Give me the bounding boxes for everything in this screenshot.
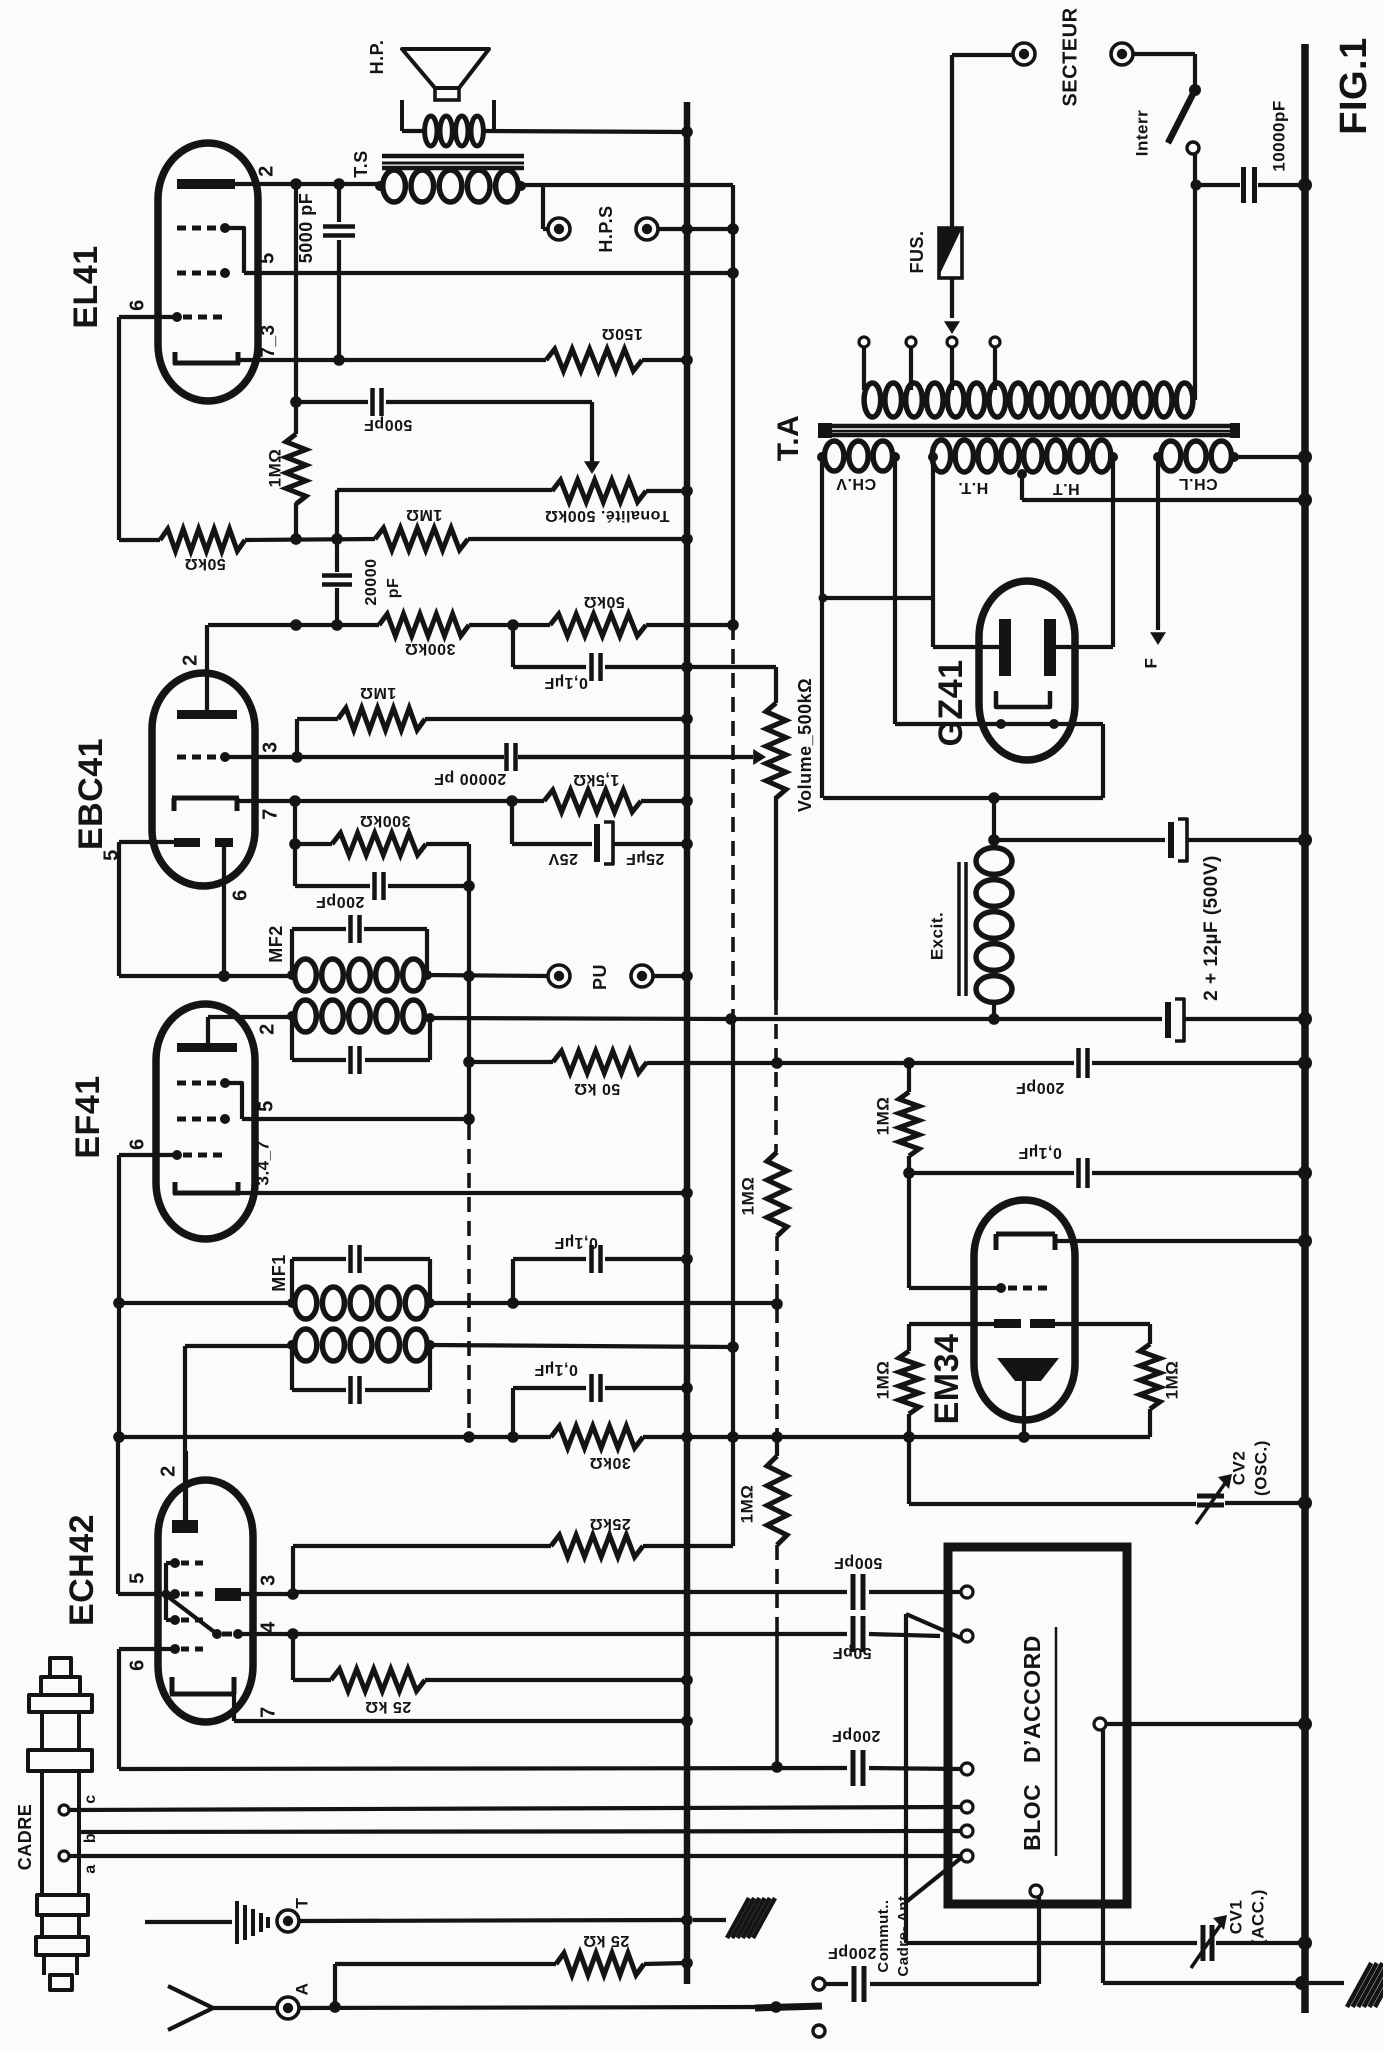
transformer CH.L label bbox=[1178, 475, 1217, 492]
antenna CADRE body bbox=[28, 1658, 92, 1990]
terminal H.P.S jack1 bbox=[548, 218, 570, 240]
wire bloc bottom to 200pF bbox=[1037, 1897, 1041, 1984]
resistor 1M (osc grid leak) bbox=[767, 1437, 787, 1545]
svg-text:CH.L: CH.L bbox=[1178, 475, 1217, 492]
capacitor 200pF (AVC filter) bbox=[777, 1048, 1312, 1078]
svg-text:25 kΩ: 25 kΩ bbox=[365, 1698, 411, 1715]
transformer MF1 secondary tank bbox=[292, 1245, 430, 1303]
tube EL41 grid2 row bbox=[177, 268, 230, 278]
capacitor 5000pF bbox=[323, 184, 355, 360]
tube ECH42 pin5 label bbox=[126, 1572, 148, 1584]
wire secteur lead2 bbox=[1133, 54, 1195, 88]
svg-text:4: 4 bbox=[257, 1621, 279, 1633]
svg-text:0,1µF: 0,1µF bbox=[554, 1234, 598, 1251]
wire EM34 cathode stem bbox=[1022, 1381, 1026, 1437]
tube EBC41 pin6 label bbox=[229, 889, 251, 901]
terminal bloc t3 bbox=[961, 1763, 973, 1775]
svg-text:CH.V: CH.V bbox=[836, 475, 876, 492]
tube ECH42 triode anode bar bbox=[215, 1588, 241, 1601]
wire EL41 pin6 grid lead bbox=[119, 317, 177, 540]
svg-text:200pF: 200pF bbox=[828, 1944, 877, 1961]
wire pin4 line to 50pF bbox=[293, 1632, 847, 1636]
wire EF41 cathode to bus bbox=[240, 1187, 693, 1199]
wire AVC branch x=469 dashed bbox=[463, 1125, 475, 1443]
svg-text:20000 pF: 20000 pF bbox=[434, 770, 506, 787]
svg-text:F: F bbox=[1141, 658, 1160, 669]
tube EM34 outline bbox=[974, 1200, 1075, 1420]
svg-text:1MΩ: 1MΩ bbox=[873, 1097, 892, 1136]
svg-text:2: 2 bbox=[179, 654, 201, 666]
label A bbox=[292, 1983, 311, 1996]
svg-text:500pF: 500pF bbox=[834, 1554, 883, 1571]
svg-text:0,1µF: 0,1µF bbox=[544, 674, 588, 691]
tube EL41 outline bbox=[158, 143, 258, 401]
label FIG.1 bbox=[1333, 37, 1375, 135]
wire 0.1uF branch drop bbox=[511, 625, 515, 667]
wire triode grid line bbox=[119, 1761, 847, 1773]
svg-text:25µF: 25µF bbox=[626, 850, 665, 867]
svg-text:0,1µF: 0,1µF bbox=[1018, 1144, 1062, 1161]
transformer T.A tap 3 bbox=[947, 337, 957, 390]
tube EBC41 pin3 label bbox=[259, 741, 281, 753]
svg-text:5000 pF: 5000 pF bbox=[296, 193, 316, 264]
antenna symbol at A bbox=[168, 1986, 276, 2030]
tube EF41 pin6 label bbox=[126, 1138, 148, 1150]
wire EBC41 pin3 grid lead bbox=[225, 751, 303, 763]
speaker H.P. horn bbox=[402, 49, 489, 100]
terminal SECTEUR plug2 bbox=[1111, 43, 1133, 65]
svg-text:H.P.S: H.P.S bbox=[596, 205, 616, 252]
capacitor 50pF label bbox=[832, 1644, 871, 1661]
wire bloc t6 link diagonal bbox=[906, 1858, 961, 1902]
svg-text:Excit.: Excit. bbox=[927, 912, 946, 960]
switch Commut lever bbox=[755, 2001, 825, 2037]
svg-text:c: c bbox=[82, 1794, 99, 1803]
label SECTEUR bbox=[1059, 7, 1081, 106]
wire EBC41 pin7 cathode lead bbox=[239, 795, 544, 807]
tube EF41 pin2 label bbox=[256, 1023, 278, 1035]
terminal A bbox=[277, 1997, 776, 2019]
svg-text:EM34: EM34 bbox=[928, 1334, 966, 1425]
svg-text:6: 6 bbox=[229, 889, 251, 901]
tube EBC41 pin5 label bbox=[100, 849, 122, 861]
tube ECH42 pin3 label bbox=[257, 1574, 279, 1586]
speaker H.P. label bbox=[367, 40, 387, 75]
terminal bloc t1 bbox=[961, 1586, 973, 1598]
resistor 1M (eye grid) bbox=[899, 1057, 919, 1288]
capacitor 0.1uF (AVC decoupling) bbox=[507, 1374, 693, 1443]
svg-text:5: 5 bbox=[100, 849, 122, 861]
transformer T.S primary winding bbox=[375, 170, 526, 202]
svg-text:H.P.: H.P. bbox=[367, 40, 387, 75]
tube EF41 pin347 label bbox=[253, 1140, 272, 1185]
resistor 1M (deflector left) bbox=[899, 1324, 919, 1437]
tube EM34 deflector bars bbox=[994, 1319, 1055, 1328]
transformer HT label left bbox=[958, 479, 988, 496]
transformer HT label right bbox=[1052, 480, 1079, 497]
wire tonalite arrow drop bbox=[584, 402, 600, 474]
tube GZ41 outline bbox=[979, 581, 1075, 760]
svg-text:1MΩ: 1MΩ bbox=[1162, 1361, 1181, 1400]
resistor 1M (volume-AVC) bbox=[767, 1152, 787, 1437]
wire ECH42 anode riser bbox=[185, 1346, 292, 1522]
wire HT rail to electrolytic bbox=[725, 1013, 1162, 1025]
choke Excit core bbox=[959, 862, 966, 996]
tube ECH42 label bbox=[63, 1514, 101, 1626]
resistor 1M (coupling) bbox=[375, 528, 693, 550]
tube EL41 pin5 label bbox=[256, 252, 278, 264]
svg-text:50 kΩ: 50 kΩ bbox=[574, 1080, 620, 1097]
tube ECH42 grid row4 bbox=[170, 1644, 203, 1654]
tube EBC41 label bbox=[72, 738, 110, 850]
tube EF41 cathode bbox=[173, 1182, 240, 1194]
node voice-coil to bus bbox=[681, 126, 693, 138]
svg-text:2: 2 bbox=[256, 1023, 278, 1035]
resistor 1M (deflector right) bbox=[1140, 1344, 1160, 1437]
svg-text:b: b bbox=[82, 1833, 99, 1843]
svg-text:2: 2 bbox=[157, 1465, 179, 1477]
transformer T.A winding CH.L bbox=[1153, 441, 1239, 471]
terminal bloc t2 bbox=[961, 1630, 973, 1642]
resistor 300k (anode load) bbox=[379, 614, 550, 636]
svg-text:1MΩ: 1MΩ bbox=[737, 1485, 756, 1524]
tube EL41 cathode bbox=[173, 352, 240, 364]
capacitor 25uF label bbox=[548, 850, 664, 867]
resistor 25k (osc grid) bbox=[551, 1535, 643, 1557]
node 150R to bus bbox=[681, 354, 693, 366]
tube EF41 pin5 label bbox=[255, 1100, 277, 1112]
wire HT left to plate bbox=[933, 457, 1005, 647]
speaker voice coil bbox=[402, 116, 687, 146]
capacitor 0.1uF eye label bbox=[1018, 1144, 1062, 1161]
resistor 1M vertical (EL41 grid) bbox=[286, 402, 306, 539]
svg-text:CV2: CV2 bbox=[1229, 1451, 1248, 1486]
tube EF41 outline bbox=[156, 1004, 255, 1239]
tube EBC41 pin2 label bbox=[179, 654, 201, 666]
capacitor 0.1uF (eye) bbox=[909, 1158, 1312, 1188]
wire EF41 pin6 grid lead bbox=[119, 1155, 177, 1303]
svg-text:CV1: CV1 bbox=[1226, 1900, 1245, 1935]
svg-text:Volume_500kΩ: Volume_500kΩ bbox=[795, 678, 815, 812]
tube EF41 grid3 row bbox=[177, 1078, 242, 1119]
svg-text:CADRE: CADRE bbox=[15, 1804, 35, 1871]
resistor 1M osc label bbox=[737, 1485, 756, 1524]
tube ECH42 grid row1 bbox=[170, 1558, 203, 1568]
terminal T bbox=[277, 1910, 693, 1932]
transformer T.S core bbox=[382, 156, 524, 168]
ground chassis hatch (bottom right) bbox=[1309, 1963, 1383, 2007]
resistor 25k cathode label bbox=[365, 1698, 411, 1715]
wire EM34 deflector left bbox=[909, 1322, 994, 1326]
ground chassis hatch (T) bbox=[693, 1898, 775, 1938]
capacitor 0.1uF label bbox=[544, 674, 588, 691]
wire MF1 right to volume line bbox=[430, 1297, 783, 1310]
capacitor 500pF osc label bbox=[834, 1554, 883, 1571]
resistor 25k (osc cathode) bbox=[293, 1634, 693, 1691]
resistor 50k label bbox=[184, 555, 226, 572]
svg-text:T.A: T.A bbox=[772, 415, 805, 462]
resistor 30k label bbox=[589, 1454, 631, 1471]
switch Interr bbox=[1168, 84, 1201, 186]
wire right HT bus (vertical, x=1305) bbox=[1301, 44, 1309, 2013]
transformer T.A primary bbox=[864, 383, 1193, 417]
wire PU jack2 to bus bbox=[653, 970, 693, 982]
wire T.S primary right to HPS rail bbox=[521, 183, 733, 187]
capacitor 20000pF label bbox=[363, 559, 402, 606]
tube ECH42 grid row2 bbox=[170, 1589, 203, 1599]
capacitor 200pF (padder) bbox=[853, 1750, 961, 1786]
svg-text:BLOC D’ACCORD: BLOC D’ACCORD bbox=[1019, 1635, 1045, 1851]
svg-text:Commut..: Commut.. bbox=[875, 1899, 892, 1972]
svg-text:7: 7 bbox=[259, 808, 281, 820]
capacitor 0.1uF (coupling) bbox=[513, 653, 776, 681]
capacitor 10000pF label bbox=[1269, 100, 1288, 172]
wire ECH42 pin3 lead bbox=[241, 1588, 299, 1600]
transformer CH.V label bbox=[836, 475, 876, 492]
wire aux link bbox=[819, 594, 934, 603]
wire HPS jack2 to bus bbox=[658, 223, 733, 235]
transformer T.S label bbox=[351, 150, 371, 178]
wire volume line dashed bbox=[771, 1000, 783, 1152]
resistor 1M coupling label bbox=[406, 506, 443, 523]
transformer MF2 primary tank bbox=[292, 1016, 430, 1074]
tube EM34 label bbox=[928, 1334, 966, 1425]
tube ECH42 outline bbox=[158, 1480, 253, 1722]
resistor 1M eye grid label bbox=[873, 1097, 892, 1136]
svg-text:10000pF: 10000pF bbox=[1269, 100, 1288, 172]
tube ECH42 osc grid row bbox=[212, 1629, 243, 1639]
capacitor 200pF (ant coupling) bbox=[813, 1966, 1039, 2002]
capacitor electrolytic 2uF bbox=[994, 819, 1312, 861]
svg-text:25V: 25V bbox=[548, 850, 578, 867]
svg-text:(OSC.): (OSC.) bbox=[1251, 1440, 1270, 1496]
potentiometer Volume 500k bbox=[766, 667, 786, 1000]
transformer MF1 secondary coil bbox=[287, 1287, 435, 1319]
capacitor 500pF bbox=[296, 388, 592, 416]
label CV1 (ACC.) bbox=[1226, 1889, 1267, 1945]
terminal SECTEUR plug1 bbox=[1013, 43, 1035, 65]
wire ECH42 pin5 lead bbox=[118, 1437, 166, 1594]
resistor 1M grid leak label bbox=[360, 684, 397, 701]
wire CV1 feed vertical bbox=[904, 1614, 908, 1943]
tube EBC41 grid row bbox=[177, 752, 230, 762]
tube ECH42 grid row3 bbox=[170, 1615, 203, 1625]
transformer T.A winding HT bbox=[928, 440, 1118, 479]
wire EL41 cathode pin7-3 lead bbox=[240, 354, 546, 366]
capacitor 50pF (osc) bbox=[853, 1616, 940, 1652]
tube GZ41 plates bbox=[999, 619, 1056, 676]
svg-text:H.T: H.T bbox=[1052, 480, 1079, 497]
svg-text:2: 2 bbox=[255, 165, 277, 177]
wire ECH42 osc grid diagonal bbox=[167, 1596, 217, 1634]
wire CH.V left drop bbox=[820, 457, 824, 798]
svg-text:MF2: MF2 bbox=[266, 925, 286, 963]
capacitor electrolytic 12uF bbox=[1165, 999, 1312, 1041]
svg-text:1,5kΩ: 1,5kΩ bbox=[573, 771, 619, 788]
label CV2 (OSC.) bbox=[1229, 1440, 1270, 1496]
potentiometer Volume label bbox=[795, 678, 815, 812]
transformer T.A tap 2 bbox=[906, 337, 916, 390]
wire AVC to EM34 bbox=[731, 1431, 1150, 1443]
wire B+ x=733 lower bbox=[727, 1022, 739, 1546]
svg-text:25kΩ: 25kΩ bbox=[589, 1515, 631, 1532]
resistor 1M label bbox=[265, 449, 284, 488]
resistor 150R label bbox=[601, 325, 643, 342]
switch Interr label bbox=[1132, 110, 1151, 156]
wire screen branch x=469 bbox=[463, 886, 475, 1125]
svg-text:300kΩ: 300kΩ bbox=[360, 812, 411, 829]
tube EBC41 pin7 label bbox=[259, 808, 281, 820]
potentiometer Tonalite label bbox=[545, 507, 670, 524]
wire ECH42 pin6 lead bbox=[119, 1649, 175, 1769]
block BLOC D'ACCORD box bbox=[948, 1547, 1127, 1904]
svg-text:300kΩ: 300kΩ bbox=[405, 640, 456, 657]
choke Excit label bbox=[927, 912, 946, 960]
tube EBC41 outline bbox=[152, 673, 255, 886]
resistor 25k (antenna) bbox=[335, 1953, 693, 2007]
label Commut Cadre Ant bbox=[875, 1895, 912, 1976]
terminal bloc t6 bbox=[961, 1850, 973, 1862]
svg-text:GZ41: GZ41 bbox=[932, 659, 970, 746]
label T bbox=[292, 1897, 311, 1908]
wire CH.L to bus bbox=[1234, 450, 1312, 464]
tube EL41 label bbox=[67, 245, 105, 328]
svg-text:Interr: Interr bbox=[1132, 110, 1151, 156]
svg-text:50pF: 50pF bbox=[832, 1644, 871, 1661]
capacitor 0.1uF (IF decoupling upper) bbox=[513, 1245, 693, 1303]
wire HT center tap bbox=[1022, 474, 1312, 507]
svg-text:6: 6 bbox=[126, 1138, 148, 1150]
wire HT right to plate bbox=[1050, 457, 1113, 647]
wire MF1 left to grid line bbox=[113, 1297, 292, 1309]
transformer MF1 primary tank bbox=[292, 1345, 430, 1404]
wire F arrow bbox=[1150, 457, 1166, 645]
transformer MF2 primary coil bbox=[287, 1000, 435, 1032]
wire EBC41 pin6 diode lead bbox=[218, 847, 230, 982]
svg-text:7_3: 7_3 bbox=[258, 324, 279, 357]
svg-text:200pF: 200pF bbox=[316, 893, 365, 910]
label F bbox=[1141, 658, 1160, 669]
tube GZ41 filament bbox=[996, 691, 1050, 707]
wire diode line to MF2 bbox=[119, 970, 292, 982]
label PU bbox=[590, 964, 610, 990]
wire osc grid riser bbox=[293, 1546, 551, 1594]
variable capacitor CV1 bbox=[906, 1915, 1312, 1968]
tube ECH42 pin7 label bbox=[257, 1706, 279, 1718]
capacitor 10000pF (mains) bbox=[1191, 167, 1313, 203]
svg-text:a: a bbox=[82, 1864, 99, 1873]
tube EM34 screen bbox=[997, 1358, 1059, 1381]
wire rectifier output bbox=[992, 798, 996, 840]
speaker frame bbox=[402, 100, 494, 131]
tube EF41 grid2 row bbox=[177, 1114, 230, 1124]
capacitor electrolytic label bbox=[1201, 855, 1222, 1001]
tube EBC41 diode plates bbox=[174, 838, 233, 847]
svg-text:ECH42: ECH42 bbox=[63, 1514, 101, 1626]
terminal PU jack2 bbox=[631, 965, 653, 987]
svg-text:1MΩ: 1MΩ bbox=[265, 449, 284, 488]
wire secteur lead1 bbox=[952, 55, 1013, 228]
resistor 150R bbox=[546, 349, 687, 371]
resistor 50k (EL41 grid leak) bbox=[119, 529, 375, 551]
svg-text:1MΩ: 1MΩ bbox=[873, 1361, 892, 1400]
svg-text:0,1µF: 0,1µF bbox=[534, 1361, 578, 1378]
capacitor 200pF ant label bbox=[828, 1944, 877, 1961]
tube EL41 anode bar bbox=[177, 179, 235, 189]
wire ECH42 grid bracket bbox=[162, 1563, 176, 1620]
tube EL41 grid1 row bbox=[172, 312, 222, 322]
svg-text:7: 7 bbox=[257, 1706, 279, 1718]
svg-text:pF: pF bbox=[385, 578, 402, 599]
capacitor 0.1uF AVC label bbox=[534, 1361, 578, 1378]
wire bloc right drop bbox=[1103, 1730, 1309, 1990]
capacitor 25uF bypass bbox=[512, 801, 693, 864]
tube EL41 grid3 row bbox=[177, 223, 244, 273]
tube ECH42 pin6 label bbox=[126, 1659, 148, 1671]
wire EM34 target to bus bbox=[1055, 1234, 1312, 1248]
resistor 25k osc label bbox=[589, 1515, 631, 1532]
wire primary right riser bbox=[1193, 186, 1197, 400]
svg-text:1MΩ: 1MΩ bbox=[738, 1177, 757, 1216]
resistor 1M deflector right label bbox=[1162, 1361, 1181, 1400]
tube EL41 pin2 label bbox=[255, 165, 277, 177]
tube ECH42 pin4 label bbox=[257, 1621, 279, 1633]
svg-text:Cadre- Ant: Cadre- Ant bbox=[895, 1895, 912, 1976]
wire pin3 line to 500pF bbox=[293, 1590, 847, 1594]
potentiometer Tonalite 500k bbox=[337, 480, 693, 502]
svg-text:5: 5 bbox=[255, 1100, 277, 1112]
choke Excit field coil bbox=[976, 848, 1012, 1019]
resistor 1M (grid leak) bbox=[297, 708, 693, 757]
tube EL41 pin6 label bbox=[126, 299, 148, 311]
resistor 50k (decoupling) bbox=[550, 614, 739, 636]
wire CV2 feed bbox=[907, 1437, 911, 1504]
node excit top bbox=[988, 834, 1000, 846]
terminal cadre a bbox=[59, 1851, 961, 1861]
wire bloc t2 link diagonal bbox=[906, 1614, 961, 1638]
svg-text:6: 6 bbox=[126, 1659, 148, 1671]
svg-text:EF41: EF41 bbox=[69, 1075, 107, 1158]
svg-text:150Ω: 150Ω bbox=[601, 325, 643, 342]
tube EF41 label bbox=[69, 1075, 107, 1158]
fuse FUS label bbox=[907, 230, 927, 273]
transformer MF2 secondary coil bbox=[287, 959, 432, 991]
svg-text:A: A bbox=[292, 1983, 311, 1996]
svg-text:500pF: 500pF bbox=[364, 416, 413, 433]
wire EM34 deflector right bbox=[1055, 1324, 1150, 1344]
wire screen feed x=733 solid bbox=[731, 273, 735, 625]
svg-text:200pF: 200pF bbox=[1016, 1079, 1065, 1096]
svg-text:30kΩ: 30kΩ bbox=[589, 1454, 631, 1471]
terminal cadre c bbox=[59, 1805, 961, 1815]
tube ECH42 hexode anode bar bbox=[172, 1520, 198, 1533]
wire AVC line bbox=[113, 1303, 551, 1443]
wire volume line lower bbox=[775, 1545, 779, 1767]
resistor 50k (screen) bbox=[469, 1051, 777, 1073]
transformer T.A winding CH.V bbox=[817, 441, 900, 471]
svg-text:3: 3 bbox=[257, 1574, 279, 1586]
svg-text:Tonalité. 500kΩ: Tonalité. 500kΩ bbox=[545, 507, 670, 524]
wire anode branch x=296 bbox=[290, 184, 302, 408]
resistor 1M deflector left label bbox=[873, 1361, 892, 1400]
svg-text:1MΩ: 1MΩ bbox=[360, 684, 397, 701]
capacitor 200pF (IF filter) bbox=[295, 844, 469, 900]
transformer T.A tap 4 bbox=[990, 337, 1000, 390]
capacitor 200pF AVC label bbox=[1016, 1079, 1065, 1096]
svg-text:50kΩ: 50kΩ bbox=[184, 555, 226, 572]
label H.P.S bbox=[596, 205, 616, 252]
tube EF41 grid1 row bbox=[172, 1150, 222, 1160]
